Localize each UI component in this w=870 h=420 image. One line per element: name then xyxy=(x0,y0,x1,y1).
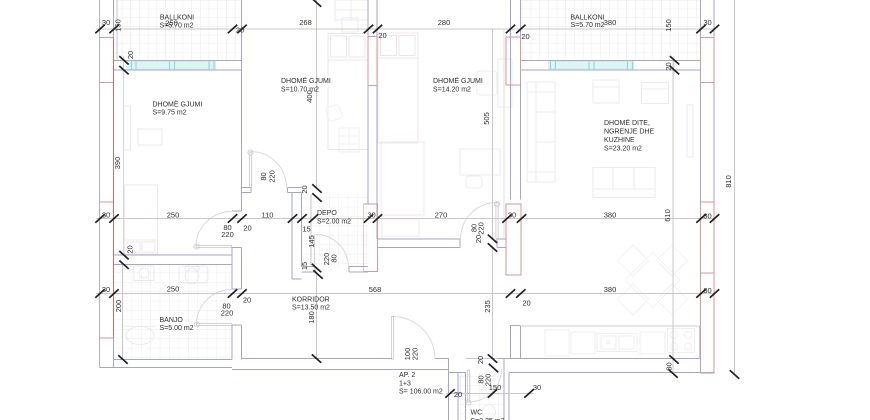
wall bed1 inner face line xyxy=(123,70,125,255)
svg-text:150: 150 xyxy=(114,19,123,32)
svg-text:110: 110 xyxy=(262,211,274,220)
kitchen stove xyxy=(668,329,695,353)
ticks window left 20 xyxy=(119,56,128,74)
sofa living vertical xyxy=(527,82,555,182)
red wall-section korridor/living xyxy=(506,204,521,275)
banjo hatch xyxy=(114,265,233,360)
svg-text:380: 380 xyxy=(604,211,617,220)
dim line 810 vertical xyxy=(734,0,736,375)
svg-text:568: 568 xyxy=(369,285,382,294)
depo hatch xyxy=(302,194,369,267)
chair2 bed3 xyxy=(466,176,482,188)
window bed1 mullion ticks xyxy=(132,61,215,69)
wall bed2/bed3 divider xyxy=(368,0,377,239)
svg-text:30: 30 xyxy=(102,18,110,27)
svg-text:20: 20 xyxy=(378,31,386,40)
svg-text:S=5.70 m2: S=5.70 m2 xyxy=(570,22,604,29)
svg-text:250: 250 xyxy=(167,211,180,220)
balcony left hatch xyxy=(117,0,242,60)
svg-text:S=9.75 m2: S=9.75 m2 xyxy=(153,110,187,117)
svg-text:220: 220 xyxy=(221,230,234,239)
red wall-section right lower midline xyxy=(701,272,715,274)
wall depo west xyxy=(292,193,302,280)
wall korridor/living with kitchen column xyxy=(510,326,520,359)
window bed1 xyxy=(127,61,216,69)
door depo leaf xyxy=(314,235,316,268)
svg-text:30: 30 xyxy=(508,211,516,220)
shower banjo xyxy=(179,266,208,283)
tick 810 bottom xyxy=(730,370,739,378)
desk bed3 xyxy=(498,59,512,107)
door bed2 leaf xyxy=(249,152,251,188)
red wall-section bed2/bed3 top xyxy=(368,37,377,86)
door bed1 knob circle xyxy=(194,244,199,249)
dim line 610 vertical xyxy=(672,61,674,374)
svg-text:DHOMË GJUMI: DHOMË GJUMI xyxy=(433,77,483,85)
dim line row C xyxy=(96,293,715,295)
dim line row B xyxy=(96,218,715,220)
svg-text:S=23.20 m2: S=23.20 m2 xyxy=(604,146,642,153)
svg-text:20: 20 xyxy=(474,235,483,243)
door wc arc xyxy=(469,369,502,402)
door bed2 knob circle xyxy=(248,150,253,155)
svg-text:20: 20 xyxy=(243,296,251,305)
wall banjo top xyxy=(114,255,233,265)
wall right outer xyxy=(701,0,715,373)
svg-text:20: 20 xyxy=(454,390,462,399)
svg-text:810: 810 xyxy=(724,175,733,188)
svg-text:610: 610 xyxy=(663,209,672,222)
door wc knob circle xyxy=(466,400,471,405)
door bed3 arc xyxy=(461,202,497,238)
sink wc xyxy=(460,376,470,394)
svg-text:235: 235 xyxy=(483,300,492,313)
wardrobe bed3 xyxy=(381,142,424,215)
bed B1 xyxy=(125,185,158,254)
svg-text:220: 220 xyxy=(477,222,486,235)
svg-text:80: 80 xyxy=(330,254,339,262)
washer banjo xyxy=(134,266,154,281)
ticks kitchen-wc 20 xyxy=(488,354,498,372)
svg-text:S=13.50 m2: S=13.50 m2 xyxy=(292,305,330,312)
svg-text:KORRIDOR: KORRIDOR xyxy=(292,297,330,304)
svg-text:20: 20 xyxy=(522,299,530,308)
chair bed2 xyxy=(325,104,343,122)
red wall-section left wall rungs xyxy=(100,38,114,339)
door bed1 arc xyxy=(196,212,232,248)
svg-text:280: 280 xyxy=(438,18,451,27)
svg-text:30: 30 xyxy=(703,18,711,27)
sink banjo xyxy=(125,327,156,345)
door banjo leaf xyxy=(196,323,232,325)
dim line 505 vertical xyxy=(492,29,494,239)
svg-text:200: 200 xyxy=(114,300,123,313)
door entrance arc xyxy=(393,317,436,360)
toilet wc xyxy=(483,405,496,420)
dresser bed3 xyxy=(382,219,419,236)
balcony right hatch xyxy=(520,0,700,60)
svg-text:150: 150 xyxy=(489,383,502,392)
svg-text:DHOMË GJUMI: DHOMË GJUMI xyxy=(281,77,331,85)
wall wc west xyxy=(449,359,466,420)
wall bed2 bottom xyxy=(242,188,302,193)
wall jamb caps bed1 door xyxy=(232,211,242,247)
svg-text:20: 20 xyxy=(300,185,309,193)
svg-text:AP. 2: AP. 2 xyxy=(399,372,415,379)
svg-text:268: 268 xyxy=(299,18,312,27)
wall balcony-left inner edge xyxy=(116,0,118,60)
svg-text:30: 30 xyxy=(102,211,110,220)
wall wc north opening caps xyxy=(465,358,497,360)
ticks dim row B xyxy=(95,214,719,222)
nightstand bed2 xyxy=(342,18,358,32)
svg-text:30: 30 xyxy=(665,362,674,370)
svg-text:NGRENJE DHE: NGRENJE DHE xyxy=(604,129,655,136)
svg-text:380: 380 xyxy=(604,285,617,294)
armchair living 2 xyxy=(642,83,669,104)
bed B2 xyxy=(328,34,368,150)
chair bed3 xyxy=(477,71,497,95)
svg-text:20: 20 xyxy=(126,51,135,59)
wall bed3 bottom xyxy=(377,239,506,248)
ticks wc dim row xyxy=(445,389,533,397)
wall left inner line xyxy=(113,0,115,368)
wall jamb caps banjo door xyxy=(232,289,242,325)
svg-text:DHOMË DITE,: DHOMË DITE, xyxy=(604,119,650,127)
svg-text:390: 390 xyxy=(113,157,122,170)
wall bath bottom xyxy=(100,360,233,368)
wall window-sill living room xyxy=(520,59,700,61)
ticks 30 bottom right xyxy=(668,355,678,377)
svg-text:400: 400 xyxy=(305,90,314,103)
dim line 200 vertical xyxy=(122,265,124,360)
window living room xyxy=(549,62,635,70)
door depo arc xyxy=(316,235,349,268)
tv cabinet living xyxy=(687,105,693,157)
svg-text:S=2.00 m2: S=2.00 m2 xyxy=(317,219,351,226)
desk bed2 xyxy=(339,128,359,152)
ticks banjo top wall 20 xyxy=(119,251,128,269)
svg-text:15: 15 xyxy=(300,262,309,270)
svg-text:S=14.20 m2: S=14.20 m2 xyxy=(433,87,471,94)
svg-text:20: 20 xyxy=(236,26,244,35)
ticks window right 20 xyxy=(670,56,679,74)
dining table diamond xyxy=(617,245,687,315)
red wall-section bed3/living top xyxy=(506,37,521,85)
armchair living 1 xyxy=(593,80,619,103)
door bed2 arc xyxy=(251,152,287,188)
dim line 180 vertical xyxy=(316,272,318,359)
wall left outer line xyxy=(99,0,101,368)
svg-text:180: 180 xyxy=(307,311,316,324)
door bed3 leaf xyxy=(496,203,498,239)
tick 180 bottom xyxy=(312,354,321,362)
dim line 20 window right xyxy=(673,56,675,75)
wall kitchen counter edge xyxy=(520,325,699,327)
wardrobe bed1 xyxy=(138,129,162,145)
svg-text:20: 20 xyxy=(126,245,135,253)
wall bed3 inner face line xyxy=(503,30,505,239)
svg-text:30: 30 xyxy=(703,212,711,221)
svg-text:BANJO: BANJO xyxy=(160,317,184,324)
dim line wc row xyxy=(446,393,534,395)
dim line row A xyxy=(96,28,715,30)
svg-text:DEPO: DEPO xyxy=(317,210,337,217)
svg-text:S= 106.00 m2: S= 106.00 m2 xyxy=(399,389,443,396)
svg-text:220: 220 xyxy=(221,309,234,318)
svg-text:WC: WC xyxy=(471,410,483,417)
svg-text:KUZHINE: KUZHINE xyxy=(604,137,635,144)
ticks bed2 bottom wall 20 xyxy=(312,184,321,201)
ticks bed3 door 20 xyxy=(488,235,497,252)
red wall-section right lower xyxy=(701,202,715,373)
window living room mullion ticks xyxy=(551,62,633,70)
toilet banjo xyxy=(185,267,199,285)
svg-text:S=5.00 m2: S=5.00 m2 xyxy=(160,325,194,332)
ticks dim row C xyxy=(95,289,719,297)
door entrance leaf xyxy=(391,317,393,360)
wall right bottom corner xyxy=(698,326,700,359)
svg-text:BALLKONI: BALLKONI xyxy=(570,15,604,22)
door bed3 knob circle xyxy=(494,201,499,206)
svg-text:20: 20 xyxy=(521,32,529,41)
svg-text:270: 270 xyxy=(435,211,448,220)
wall korridor bottom xyxy=(232,359,449,370)
dim line 145 vertical xyxy=(310,194,312,266)
svg-text:150: 150 xyxy=(664,19,673,32)
svg-text:30: 30 xyxy=(533,383,541,392)
tick 200 bottom xyxy=(118,355,127,363)
door bed1 leaf xyxy=(196,245,232,247)
svg-text:220: 220 xyxy=(268,170,277,183)
svg-text:20: 20 xyxy=(243,224,251,233)
door banjo knob circle xyxy=(194,322,199,327)
svg-text:1+3: 1+3 xyxy=(399,381,411,388)
svg-text:220: 220 xyxy=(411,348,420,361)
svg-text:30: 30 xyxy=(102,285,110,294)
svg-text:380: 380 xyxy=(604,18,617,27)
wall bed1/korridor east jamb line xyxy=(231,247,233,359)
svg-text:505: 505 xyxy=(482,112,491,125)
dim line 400 vertical xyxy=(316,0,318,188)
wall wc east xyxy=(498,359,521,420)
wardrobe bed2 top xyxy=(335,0,368,20)
wall bed3/living divider xyxy=(510,0,520,200)
tick 400 top xyxy=(312,0,321,7)
wall window-sill left room xyxy=(114,59,242,61)
ticks depo door 15 xyxy=(312,264,323,279)
svg-text:250: 250 xyxy=(167,285,180,294)
wall kitchen bottom xyxy=(509,359,714,373)
svg-text:S=5.70 m2: S=5.70 m2 xyxy=(159,23,193,30)
bed B3 xyxy=(378,33,418,143)
svg-text:30: 30 xyxy=(703,286,711,295)
door banjo arc xyxy=(196,290,232,326)
kitchen counter appliances xyxy=(545,330,665,356)
wall depo bottom xyxy=(302,267,369,273)
sofa living horizontal xyxy=(593,168,655,198)
table bed3 xyxy=(460,149,500,175)
wall bed1/bed2 divider xyxy=(241,0,243,360)
door wc leaf xyxy=(467,370,469,402)
dim line 20 window left xyxy=(123,56,125,74)
cabinet bed1 xyxy=(124,106,131,150)
svg-text:20: 20 xyxy=(664,62,673,70)
svg-text:30: 30 xyxy=(367,211,375,220)
svg-text:20: 20 xyxy=(476,356,485,364)
svg-text:DHOMË GJUMI: DHOMË GJUMI xyxy=(153,101,203,109)
wc hatch xyxy=(458,373,504,420)
ticks dim row A xyxy=(95,25,719,33)
red wall-section depo east xyxy=(364,204,378,272)
svg-text:15: 15 xyxy=(302,225,310,234)
red wall-section right top xyxy=(701,38,715,83)
svg-text:145: 145 xyxy=(307,235,316,248)
red wall-section left wall vertical xyxy=(113,38,115,339)
dim line 235 vertical xyxy=(492,248,494,359)
